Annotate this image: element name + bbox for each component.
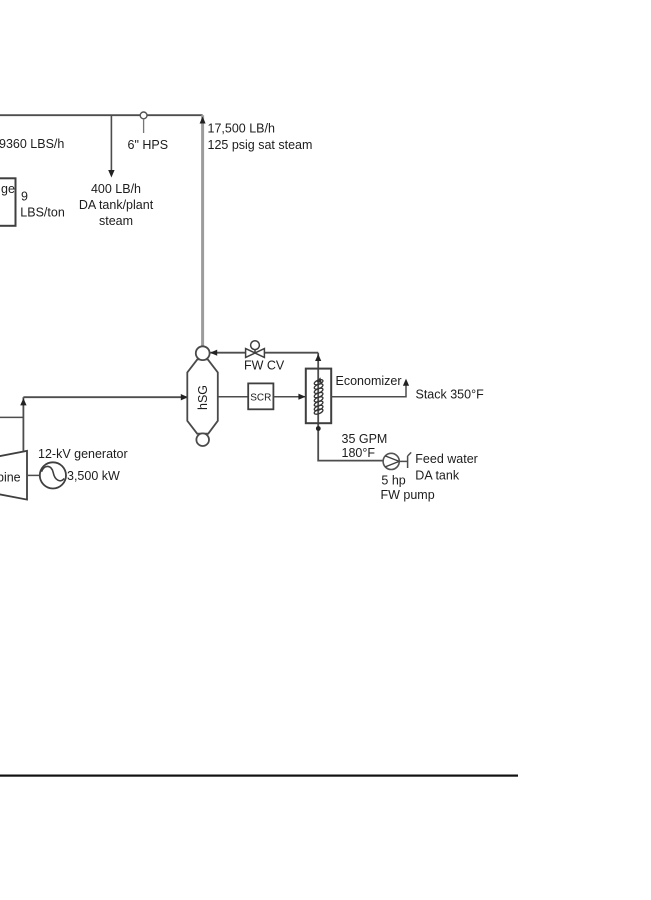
box: sludge storage (cut off at left edge)	[0, 178, 16, 226]
svg-text:9: 9	[21, 190, 28, 204]
wire: hSG flue gas to SCR	[218, 396, 248, 398]
arrow: exhaust up at junction	[20, 398, 26, 405]
svg-text:6" HPS: 6" HPS	[128, 138, 169, 152]
wire: turbine exhaust riser	[22, 397, 24, 451]
generator G1 circle	[40, 462, 66, 488]
wire: SCR to economizer	[273, 396, 305, 398]
valve FW CV body (bowtie)	[246, 349, 265, 358]
svg-text:DA tank/plant: DA tank/plant	[79, 198, 154, 212]
wire: economizer to stack	[331, 382, 406, 397]
svg-text:Stack 350°F: Stack 350°F	[416, 388, 485, 402]
arrow: into economizer	[298, 394, 305, 400]
svg-text:3,500 kW: 3,500 kW	[67, 469, 120, 483]
vent circle on steam header	[140, 112, 147, 119]
svg-text:Economizer: Economizer	[336, 374, 402, 388]
economizer box	[306, 369, 331, 424]
hSG bottom drum circle	[196, 433, 209, 446]
svg-text:125 psig sat steam: 125 psig sat steam	[208, 138, 313, 152]
arrow: feedwater flow up below corner	[315, 354, 321, 361]
wire: steam riser from hSG drum up to header	[201, 115, 204, 346]
economizer coil	[314, 379, 324, 416]
svg-text:ge: ge	[1, 182, 15, 196]
arrow: into hSG top drum	[210, 350, 217, 356]
wire: DA tank / plant steam drop	[110, 115, 112, 171]
hSG vessel body	[187, 359, 218, 433]
svg-text:FW CV: FW CV	[244, 358, 285, 372]
leader line from vent circle to 6" HPS label	[143, 119, 145, 133]
svg-text:180°F: 180°F	[342, 446, 376, 460]
svg-text:bine: bine	[0, 470, 21, 484]
wire: pump suction from DA tank	[399, 460, 407, 462]
svg-text:hSG: hSG	[196, 385, 210, 410]
svg-text:400 LB/h: 400 LB/h	[91, 182, 141, 196]
svg-text:35 GPM: 35 GPM	[342, 432, 388, 446]
hSG top drum circle	[196, 346, 210, 360]
wire: plant connection into exhaust riser	[0, 416, 23, 418]
svg-text:Feed water: Feed water	[415, 452, 478, 466]
svg-text:LBS/ton: LBS/ton	[20, 206, 65, 220]
svg-text:5 hp: 5 hp	[381, 474, 405, 488]
DA tank connection tick	[408, 452, 412, 468]
wire: feedwater riser through economizer down to pump	[318, 353, 383, 461]
arrow: top of coil	[316, 377, 322, 383]
arrow: into hSG left side	[181, 394, 188, 400]
SCR box	[248, 383, 273, 409]
pump impeller lines	[385, 456, 399, 467]
pump P1 circle	[383, 453, 399, 469]
wire: turbine shaft to generator	[27, 474, 40, 476]
arrow: down to DA tank/plant steam	[108, 170, 114, 178]
valve FW CV actuator	[251, 341, 260, 350]
wire: main steam header (top horizontal)	[0, 114, 203, 116]
svg-text:DA tank: DA tank	[415, 468, 460, 482]
valve FW CV stem	[254, 350, 256, 354]
svg-text:FW pump: FW pump	[381, 488, 435, 502]
arrow: steam flow up into header	[200, 117, 206, 124]
junction dot below economizer	[316, 426, 321, 431]
svg-text:17,500 LB/h: 17,500 LB/h	[208, 121, 275, 135]
wire: exhaust duct to hSG	[23, 396, 187, 398]
svg-text:9360 LBS/h: 9360 LBS/h	[0, 137, 64, 151]
arrow: stack up	[403, 379, 409, 386]
turbine (trapezoid, cut off at left edge)	[0, 451, 27, 500]
bottom rule	[0, 775, 518, 777]
svg-text:SCR: SCR	[250, 392, 271, 403]
svg-text:12-kV generator: 12-kV generator	[38, 447, 128, 461]
svg-text:steam: steam	[99, 214, 133, 228]
generator sine symbol	[42, 466, 65, 480]
wire: feedwater line from FW CV into hSG drum	[211, 352, 319, 354]
